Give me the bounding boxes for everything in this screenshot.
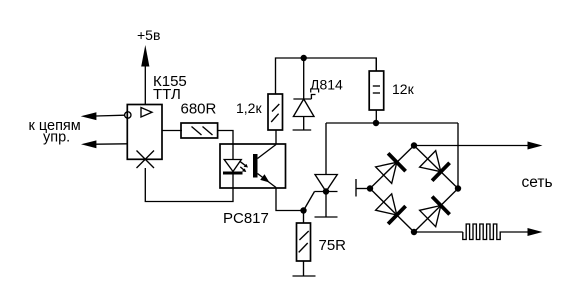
svg-text:ТТЛ: ТТЛ — [153, 86, 181, 103]
light arrow 2 — [240, 167, 244, 170]
wire input A — [96, 114, 125, 117]
junction dot bridge left — [367, 185, 373, 191]
svg-text:упр.: упр. — [43, 130, 70, 146]
LED cathode bar — [223, 172, 243, 175]
thyristor gate wire — [304, 192, 315, 211]
junction dot thyristor cathode — [323, 188, 329, 194]
thyristor cathode stem — [325, 192, 327, 218]
LED cathode wire — [232, 173, 234, 188]
svg-text:1,2к: 1,2к — [236, 100, 262, 116]
junction dot bridge right — [455, 185, 461, 191]
wire mains top — [414, 145, 528, 147]
wire rail to bridge right vertex — [457, 123, 459, 189]
bridge side top-right — [414, 146, 458, 189]
wire rail to 12к — [375, 58, 377, 71]
resistor 1,2к — [268, 94, 283, 130]
optocoupler PC817 box — [220, 144, 286, 188]
junction dot gate node — [300, 207, 306, 213]
emitter arrowhead — [260, 174, 269, 182]
resistor 75R — [297, 223, 311, 261]
wire terminal to bridge left vertex — [356, 188, 370, 190]
DC rail — [326, 122, 458, 124]
wire zener top — [303, 58, 305, 99]
wire +5V supply to gate — [144, 64, 146, 105]
zener diode Д814 — [293, 98, 311, 100]
thyristor cathode bar — [315, 191, 338, 193]
open-collector X mark on gate output — [137, 151, 155, 169]
inversion circle on input A — [125, 112, 131, 118]
resistor 12к — [369, 71, 384, 110]
wire LED cathode return to gate — [145, 168, 233, 202]
junction dot bridge bottom — [411, 229, 417, 235]
power arrow +5в — [141, 45, 149, 67]
bridge diode D2 (top to right) — [420, 151, 441, 172]
bridge diode D1 (left to top) — [376, 162, 397, 183]
wire gate node to 75R — [303, 211, 305, 224]
amplifier symbol inside gate — [141, 108, 152, 118]
arrowhead input B — [81, 140, 96, 148]
svg-text:+5в: +5в — [137, 27, 160, 43]
LED triangle — [224, 160, 241, 172]
svg-text:12к: 12к — [392, 81, 415, 97]
junction dot bridge top — [411, 142, 417, 148]
logic gate U1 K155 box — [127, 105, 162, 160]
light arrow 1 — [240, 161, 246, 166]
wire 1,2k top to rail — [276, 58, 377, 94]
svg-text:сеть: сеть — [522, 174, 553, 191]
phototransistor base bar — [253, 154, 258, 178]
wire gate output to 680R — [162, 130, 182, 132]
svg-text:Д814: Д814 — [310, 77, 343, 93]
arrowhead input A — [81, 112, 97, 120]
bridge side bottom-right — [414, 189, 458, 233]
inductor coil — [463, 224, 528, 240]
collector line — [258, 145, 277, 159]
arrowhead mains top — [528, 142, 543, 150]
junction dot zener top — [301, 55, 307, 61]
thyristor triangle — [315, 175, 337, 192]
wire 680R to optocoupler LED — [218, 131, 233, 145]
wire 75R bottom — [303, 261, 305, 276]
svg-text:PC817: PC817 — [223, 210, 269, 227]
svg-text:75R: 75R — [319, 237, 347, 254]
emitter line — [258, 174, 277, 188]
resistor 680R — [181, 123, 218, 138]
wire rail to thyristor anode — [325, 123, 327, 175]
bridge left terminal bar — [355, 179, 357, 197]
bridge side left-top — [370, 146, 414, 189]
thyristor terminal bar — [315, 216, 338, 218]
wire bridge bottom to inductor — [414, 231, 463, 233]
arrowhead mains bottom — [528, 228, 543, 236]
wire 12к bottom — [375, 110, 377, 123]
wire opto emitter to gate node — [276, 188, 304, 211]
bridge side left-bottom — [370, 189, 414, 233]
junction dot 12к bottom — [373, 120, 379, 126]
wire input B — [96, 143, 127, 145]
LED anode wire — [232, 144, 234, 160]
bridge diode D4 (bottom to right) — [420, 206, 441, 227]
wire collector to 1,2k — [275, 130, 277, 144]
terminal bar 75R — [293, 275, 316, 277]
svg-text:680R: 680R — [181, 101, 217, 118]
bridge diode D3 (left to bottom) — [376, 194, 397, 215]
